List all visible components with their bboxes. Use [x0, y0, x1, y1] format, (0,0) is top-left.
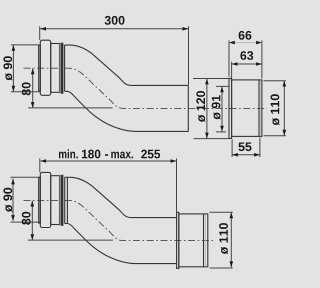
socket ring top drawing: [40, 40, 50, 95]
dim min-max right extension line: [176, 159, 178, 213]
elbow bottom outline (bottom drawing): [65, 224, 177, 264]
dim 66 line (lavender): [235, 42, 256, 44]
dim 55 extension lines: [231, 139, 233, 157]
dim 300 label: [105, 16, 125, 25]
dim 80 bottom label: [22, 212, 31, 225]
dim 55 line: [232, 154, 260, 156]
dim ø110 bottom extension lines: [210, 211, 233, 213]
dim ø90 bottom extension lines: [11, 176, 40, 178]
dim min-max left extension line: [39, 159, 41, 173]
socket lip lines bottom: [64, 177, 66, 223]
dim ø110 bottom line: [230, 213, 232, 268]
dim 80 top label: [22, 82, 31, 95]
socket lip lines: [64, 45, 66, 91]
socket middle section: [51, 44, 60, 93]
dim ø110 top-right line: [283, 81, 285, 136]
dim min-max line: [40, 160, 176, 162]
adapter rim line: [258, 80, 260, 136]
dim ø120 label: [196, 91, 205, 122]
dim ø90 bottom line: [12, 179, 14, 221]
socket left face line bottom: [39, 177, 41, 223]
dim ø91 line: [221, 87, 223, 132]
elbow bottom outline (top drawing): [65, 91, 189, 131]
dim ø90 top extension lines: [11, 44, 40, 46]
dim 66 extension lines: [228, 40, 230, 76]
outlet socket rim line: [203, 214, 205, 267]
socket clamp band dark: [60, 43, 62, 94]
dim 55 label: [239, 143, 252, 152]
elbow outlet end cap: [187, 85, 189, 131]
dim ø110 top-right label: [271, 94, 280, 125]
dim 80 bottom extension line: [28, 239, 113, 241]
dim ø90 top label: [3, 56, 12, 80]
dim ø110 top-right extension lines: [264, 80, 286, 82]
outlet socket rim highlight: [204, 214, 206, 266]
inlet centre line bottom: [24, 200, 214, 240]
adapter lip (top part): [229, 78, 232, 138]
outlet socket body (bottom part): [179, 214, 208, 267]
dim ø110 bottom label: [219, 223, 228, 254]
adapter rim highlight: [260, 80, 262, 135]
dim 66 label: [239, 31, 252, 40]
socket clamp band dark bottom: [60, 175, 62, 226]
dim min-max label: [59, 149, 160, 158]
dim ø91 extension lines: [216, 85, 229, 87]
dim 63 line: [232, 63, 262, 65]
inlet centre line top: [24, 68, 268, 108]
dim 80 top line: [32, 68, 34, 108]
elbow top outline (top drawing): [65, 45, 189, 85]
dim 63 left extension line: [231, 62, 233, 79]
dim 300 left extension line: [39, 26, 41, 40]
elbow top outline (bottom drawing): [65, 177, 177, 217]
adapter body (top part): [232, 80, 262, 136]
dim ø90 top line: [12, 45, 14, 92]
dim 80 bottom line: [31, 201, 33, 240]
dim 80 top bottom extension line: [28, 107, 112, 109]
dim 63 label: [240, 51, 253, 60]
dim ø90 bottom label: [3, 188, 12, 212]
dim ø120 extension lines: [193, 78, 231, 80]
dim 300 right extension line: [188, 26, 190, 85]
dim ø120 line: [206, 79, 208, 139]
socket left face line: [39, 45, 41, 91]
outlet socket lip (bottom part): [177, 212, 179, 268]
socket middle section bottom: [51, 176, 60, 225]
socket ring bottom drawing: [40, 172, 50, 227]
dim 300 line: [40, 28, 188, 30]
dim ø91 label: [212, 95, 221, 120]
